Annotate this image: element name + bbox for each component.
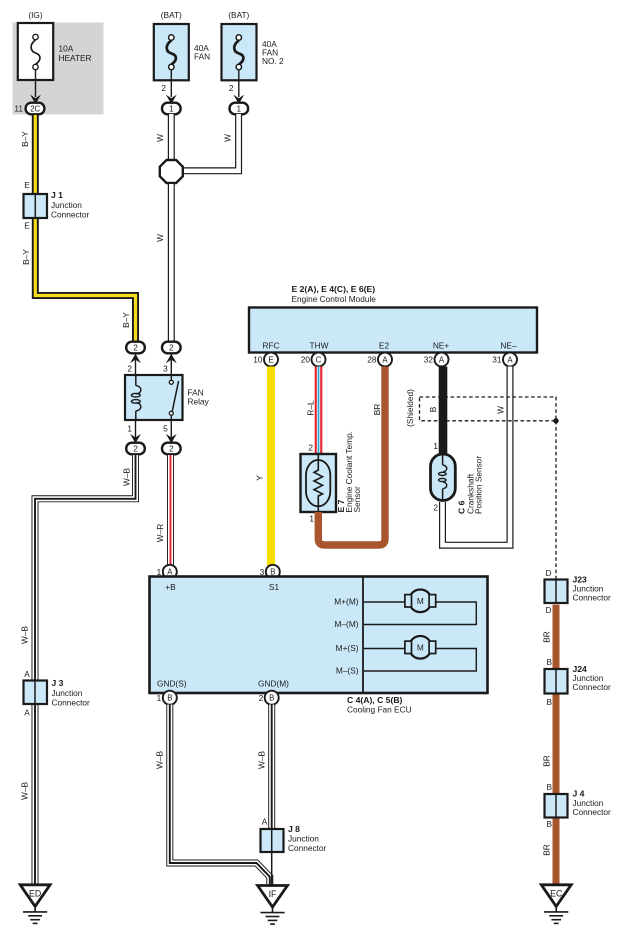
svg-text:E: E bbox=[268, 355, 273, 364]
svg-text:2: 2 bbox=[229, 83, 234, 93]
wire W-R relay pin5 to cooling fan ECU +B bbox=[167, 455, 174, 566]
wire W-B relay pin1 to ED ground via J3 bbox=[35, 455, 136, 884]
svg-text:C 4(A), C 5(B): C 4(A), C 5(B) bbox=[347, 695, 403, 705]
svg-text:2: 2 bbox=[133, 444, 138, 454]
svg-text:W: W bbox=[223, 134, 233, 142]
label W-B (left column lower) bbox=[20, 782, 30, 800]
motor M (sub fan) bbox=[364, 636, 476, 671]
wire into relay pin 2 with up arrow bbox=[127, 354, 141, 375]
svg-text:S1: S1 bbox=[269, 582, 280, 592]
svg-text:Relay: Relay bbox=[188, 397, 210, 407]
svg-text:1: 1 bbox=[236, 104, 241, 114]
svg-text:1: 1 bbox=[309, 514, 314, 524]
svg-text:11: 11 bbox=[14, 104, 23, 114]
ECM pin 31 (A) NE- bbox=[492, 353, 517, 367]
svg-text:THW: THW bbox=[310, 341, 329, 351]
svg-text:M+(M): M+(M) bbox=[334, 597, 358, 607]
wire B from NE+ to crankshaft sensor pin 1 bbox=[439, 367, 448, 457]
label D (above J23) bbox=[546, 568, 552, 578]
label BR (upper) bbox=[542, 631, 552, 643]
label B (shielded) bbox=[428, 406, 438, 412]
svg-text:B: B bbox=[167, 694, 172, 703]
svg-text:E2: E2 bbox=[379, 341, 390, 351]
svg-text:IF: IF bbox=[269, 889, 277, 899]
wire fuse 10A to connector 2C bbox=[35, 70, 37, 97]
svg-text:B: B bbox=[428, 406, 438, 412]
svg-text:B–Y: B–Y bbox=[20, 131, 30, 147]
svg-text:Connector: Connector bbox=[52, 698, 91, 708]
svg-text:M–(S): M–(S) bbox=[336, 666, 359, 676]
svg-text:NO. 2: NO. 2 bbox=[262, 56, 284, 66]
wire into relay pin 3 with up arrow bbox=[163, 354, 177, 375]
svg-text:J 3: J 3 bbox=[52, 678, 64, 688]
wire from relay pin 5 with down arrow bbox=[163, 420, 177, 443]
svg-text:M–(M): M–(M) bbox=[335, 619, 359, 629]
wire from relay pin 1 with down arrow bbox=[127, 420, 141, 443]
svg-text:Connector: Connector bbox=[573, 593, 612, 603]
svg-text:R–L: R–L bbox=[306, 400, 316, 416]
wire BR J23 to EC ground bbox=[553, 605, 560, 885]
svg-text:B: B bbox=[546, 697, 552, 707]
svg-text:BR: BR bbox=[542, 631, 552, 643]
svg-text:BR: BR bbox=[372, 404, 382, 416]
svg-text:GND(S): GND(S) bbox=[157, 679, 187, 689]
svg-text:B: B bbox=[269, 694, 274, 703]
svg-text:Connector: Connector bbox=[51, 209, 90, 219]
node shield drain junction bbox=[553, 418, 558, 423]
svg-text:3: 3 bbox=[163, 364, 168, 374]
motor M (main fan) bbox=[364, 590, 476, 625]
ECU (engine control module) box U1 bbox=[249, 308, 537, 353]
label A (above J8) bbox=[262, 817, 268, 827]
label BR bbox=[372, 404, 382, 416]
svg-text:31: 31 bbox=[492, 355, 502, 365]
label E (above J1) bbox=[24, 180, 30, 190]
label B (below J24) bbox=[546, 697, 552, 707]
label pin 2 of E7 bbox=[308, 443, 313, 453]
cooling fan ECU pin 1 (B) GND(S) bbox=[157, 691, 177, 705]
cooling fan ECU pin 2 (B) GND(M) bbox=[259, 691, 279, 705]
label W-R bbox=[155, 524, 165, 542]
svg-text:10: 10 bbox=[253, 355, 263, 365]
label W-B (GND S) bbox=[155, 751, 165, 769]
label B-Y (upper) bbox=[20, 131, 30, 147]
svg-text:M+(S): M+(S) bbox=[336, 643, 359, 653]
label W-B (relay drop) bbox=[122, 468, 132, 486]
node (IG) supply shading bbox=[13, 23, 104, 115]
svg-text:2: 2 bbox=[308, 443, 313, 453]
connector 2C pin 11 bbox=[14, 95, 44, 115]
label pin 1 of C6 bbox=[433, 441, 438, 451]
junction connector J1 bbox=[24, 190, 90, 219]
fuse 40A FAN bbox=[154, 24, 210, 80]
svg-text:A: A bbox=[439, 355, 445, 364]
svg-text:A: A bbox=[24, 708, 30, 718]
cooling fan ECU box bbox=[150, 577, 488, 694]
wire R-L from THW to coolant temp sensor bbox=[315, 367, 323, 455]
sensor E7 engine coolant temp sensor bbox=[301, 454, 337, 512]
svg-text:(Shielded): (Shielded) bbox=[405, 389, 415, 427]
svg-text:W–R: W–R bbox=[155, 524, 165, 542]
svg-text:W–B: W–B bbox=[155, 751, 165, 769]
wire B-Y from 2C through J1 to fan relay pin 2 bbox=[35, 115, 135, 342]
connector pin 1 below 40A FAN NO.2 bbox=[230, 95, 249, 115]
svg-text:NE+: NE+ bbox=[433, 341, 450, 351]
svg-text:B–Y: B–Y bbox=[21, 249, 31, 265]
svg-text:5: 5 bbox=[163, 424, 168, 434]
junction connector J3 bbox=[24, 678, 91, 708]
svg-text:1: 1 bbox=[169, 104, 174, 114]
svg-text:W: W bbox=[155, 234, 165, 242]
svg-text:2: 2 bbox=[259, 693, 264, 703]
ECM pin 20 (C) THW bbox=[301, 353, 326, 367]
label (BAT) fan fuse bbox=[161, 10, 182, 20]
svg-text:Cooling Fan ECU: Cooling Fan ECU bbox=[347, 705, 412, 715]
svg-text:2: 2 bbox=[433, 503, 438, 513]
fuse 10A HEATER bbox=[18, 23, 92, 80]
svg-text:W–B: W–B bbox=[20, 626, 30, 644]
svg-text:E: E bbox=[24, 221, 30, 231]
svg-text:BR: BR bbox=[542, 755, 552, 767]
svg-text:W–B: W–B bbox=[122, 468, 132, 486]
label BR (lower) bbox=[542, 844, 552, 856]
label B (above J24) bbox=[546, 657, 552, 667]
connector oval 2 (relay pin 5 bottom) bbox=[162, 443, 181, 455]
wire fuse 40A FAN NO.2 pin 2 bbox=[229, 70, 239, 97]
ground ED bbox=[20, 885, 50, 924]
junction connector J8 bbox=[261, 824, 327, 853]
svg-text:Position Sensor: Position Sensor bbox=[474, 456, 484, 514]
node octagon junction bbox=[160, 160, 183, 183]
label W (to relay) bbox=[155, 234, 165, 242]
connector oval 2 (relay pin 2 top) bbox=[126, 342, 145, 354]
cooling fan ECU pin 3 (B) S1 bbox=[260, 565, 280, 579]
svg-text:Junction: Junction bbox=[51, 200, 82, 210]
svg-text:E 2(A), E 4(C), E 6(E): E 2(A), E 4(C), E 6(E) bbox=[292, 284, 376, 294]
wire W from 40A FAN NO.2 to octagon junction bbox=[181, 114, 239, 171]
sensor C6 crankshaft position sensor bbox=[431, 454, 456, 501]
svg-text:W: W bbox=[155, 134, 165, 142]
label C 4(A), C 5(B) Cooling Fan ECU bbox=[347, 695, 412, 715]
svg-text:Engine Control Module: Engine Control Module bbox=[292, 294, 377, 304]
svg-text:B: B bbox=[546, 657, 552, 667]
label BR (middle) bbox=[542, 755, 552, 767]
svg-text:B: B bbox=[546, 782, 552, 792]
svg-text:M: M bbox=[417, 643, 424, 653]
ground EC bbox=[541, 885, 571, 924]
connector pin 1 below 40A FAN bbox=[162, 95, 181, 115]
label E (below J1) bbox=[24, 221, 30, 231]
label A (below J3) bbox=[24, 708, 30, 718]
svg-text:B–Y: B–Y bbox=[121, 312, 131, 328]
ECM pin 32 (A) NE+ bbox=[424, 353, 449, 367]
label B (above J4) bbox=[546, 782, 552, 792]
svg-text:20: 20 bbox=[301, 355, 311, 365]
wire W octagon to fan relay pin 3 bbox=[168, 184, 175, 342]
label (IG) bbox=[28, 10, 43, 20]
svg-text:Junction: Junction bbox=[52, 688, 83, 698]
connector oval 2 (relay pin 1 bottom) bbox=[126, 443, 145, 455]
svg-text:Connector: Connector bbox=[573, 807, 612, 817]
svg-text:M: M bbox=[417, 596, 424, 606]
svg-text:W: W bbox=[496, 406, 506, 414]
label (BAT) fan no.2 fuse bbox=[228, 10, 249, 20]
svg-text:EC: EC bbox=[550, 888, 563, 898]
svg-text:FAN: FAN bbox=[194, 52, 210, 62]
svg-text:Sensor: Sensor bbox=[352, 486, 362, 513]
label B-Y (middle) bbox=[21, 249, 31, 265]
svg-text:A: A bbox=[507, 355, 513, 364]
label Y bbox=[255, 475, 265, 481]
ECM pin 28 (A) E2 bbox=[367, 353, 392, 367]
svg-text:D: D bbox=[546, 605, 552, 615]
svg-text:NE–: NE– bbox=[500, 341, 517, 351]
svg-text:Junction: Junction bbox=[288, 834, 319, 844]
svg-text:BR: BR bbox=[542, 844, 552, 856]
svg-text:10A: 10A bbox=[59, 44, 74, 54]
svg-text:W–B: W–B bbox=[257, 751, 267, 769]
svg-text:GND(M): GND(M) bbox=[258, 679, 289, 689]
relay FAN Relay bbox=[125, 375, 210, 420]
label E 7 Engine Coolant Temp. Sensor bbox=[336, 431, 362, 513]
wire fuse 40A FAN pin 2 bbox=[161, 70, 171, 97]
connector oval 2 (relay pin 3 top) bbox=[162, 342, 181, 354]
svg-text:A: A bbox=[262, 817, 268, 827]
junction connector J23 bbox=[545, 574, 612, 603]
svg-text:J 1: J 1 bbox=[51, 190, 63, 200]
wire W-B GND(M) to IF ground via J8 bbox=[268, 705, 275, 886]
wire W-B GND(S) to IF ground bbox=[170, 705, 270, 886]
svg-text:E: E bbox=[24, 180, 30, 190]
ECM pin 10 (E) RFC bbox=[253, 353, 278, 367]
svg-text:ED: ED bbox=[29, 888, 41, 898]
svg-text:2: 2 bbox=[133, 343, 138, 353]
fuse 40A FAN NO. 2 bbox=[222, 24, 285, 80]
ECM title bbox=[292, 284, 377, 304]
label A (above J3) bbox=[24, 669, 30, 679]
wire Y from RFC to cooling fan ECU S1 bbox=[267, 367, 275, 566]
svg-text:RFC: RFC bbox=[262, 341, 279, 351]
wire W from NE- to crankshaft sensor pin 2 bbox=[443, 367, 511, 546]
svg-text:A: A bbox=[24, 669, 30, 679]
svg-text:+B: +B bbox=[165, 582, 176, 592]
svg-text:2: 2 bbox=[161, 83, 166, 93]
wire BR from E2 to coolant temp sensor pin 1 bbox=[318, 367, 385, 546]
label B-Y (at relay drop) bbox=[121, 312, 131, 328]
svg-text:Connector: Connector bbox=[288, 843, 327, 853]
svg-text:(BAT): (BAT) bbox=[161, 10, 182, 20]
label B (below J4) bbox=[546, 819, 552, 829]
svg-text:2: 2 bbox=[127, 364, 132, 374]
svg-text:A: A bbox=[382, 355, 388, 364]
label R-L bbox=[306, 400, 316, 416]
svg-text:2: 2 bbox=[169, 343, 174, 353]
shield dashed box (Shielded) bbox=[405, 389, 556, 427]
svg-text:C: C bbox=[316, 355, 322, 364]
svg-text:1: 1 bbox=[433, 441, 438, 451]
svg-text:D: D bbox=[546, 568, 552, 578]
svg-text:1: 1 bbox=[157, 693, 162, 703]
svg-text:HEATER: HEATER bbox=[59, 53, 92, 63]
svg-text:2: 2 bbox=[169, 444, 174, 454]
svg-text:(IG): (IG) bbox=[28, 10, 43, 20]
label W (right feed) bbox=[223, 134, 233, 142]
svg-text:32: 32 bbox=[424, 355, 434, 365]
label W (left feed) bbox=[155, 134, 165, 142]
svg-text:28: 28 bbox=[367, 355, 377, 365]
svg-text:2C: 2C bbox=[30, 104, 40, 113]
svg-text:J 8: J 8 bbox=[288, 824, 300, 834]
label pin 2 of C6 bbox=[433, 503, 438, 513]
ground IF bbox=[258, 886, 288, 925]
label W (shielded) bbox=[496, 406, 506, 414]
junction connector J4 bbox=[545, 789, 612, 818]
junction connector J24 bbox=[545, 664, 612, 694]
svg-text:1: 1 bbox=[127, 424, 132, 434]
cooling fan ECU pin 1 (A) +B bbox=[157, 565, 177, 579]
svg-text:B: B bbox=[546, 819, 552, 829]
label D (below J23) bbox=[546, 605, 552, 615]
label W-B (GND M) bbox=[257, 751, 267, 769]
wire shield drain dashed to J23 bbox=[555, 421, 557, 580]
svg-text:Y: Y bbox=[255, 475, 265, 481]
svg-text:Connector: Connector bbox=[573, 682, 612, 692]
wire W from 40A FAN to octagon junction bbox=[168, 114, 175, 161]
svg-text:(BAT): (BAT) bbox=[228, 10, 249, 20]
label W-B (left column upper) bbox=[20, 626, 30, 644]
label pin 1 of E7 bbox=[309, 514, 314, 524]
svg-text:W–B: W–B bbox=[20, 782, 30, 800]
label C 6 Crankshaft Position Sensor bbox=[457, 456, 484, 514]
